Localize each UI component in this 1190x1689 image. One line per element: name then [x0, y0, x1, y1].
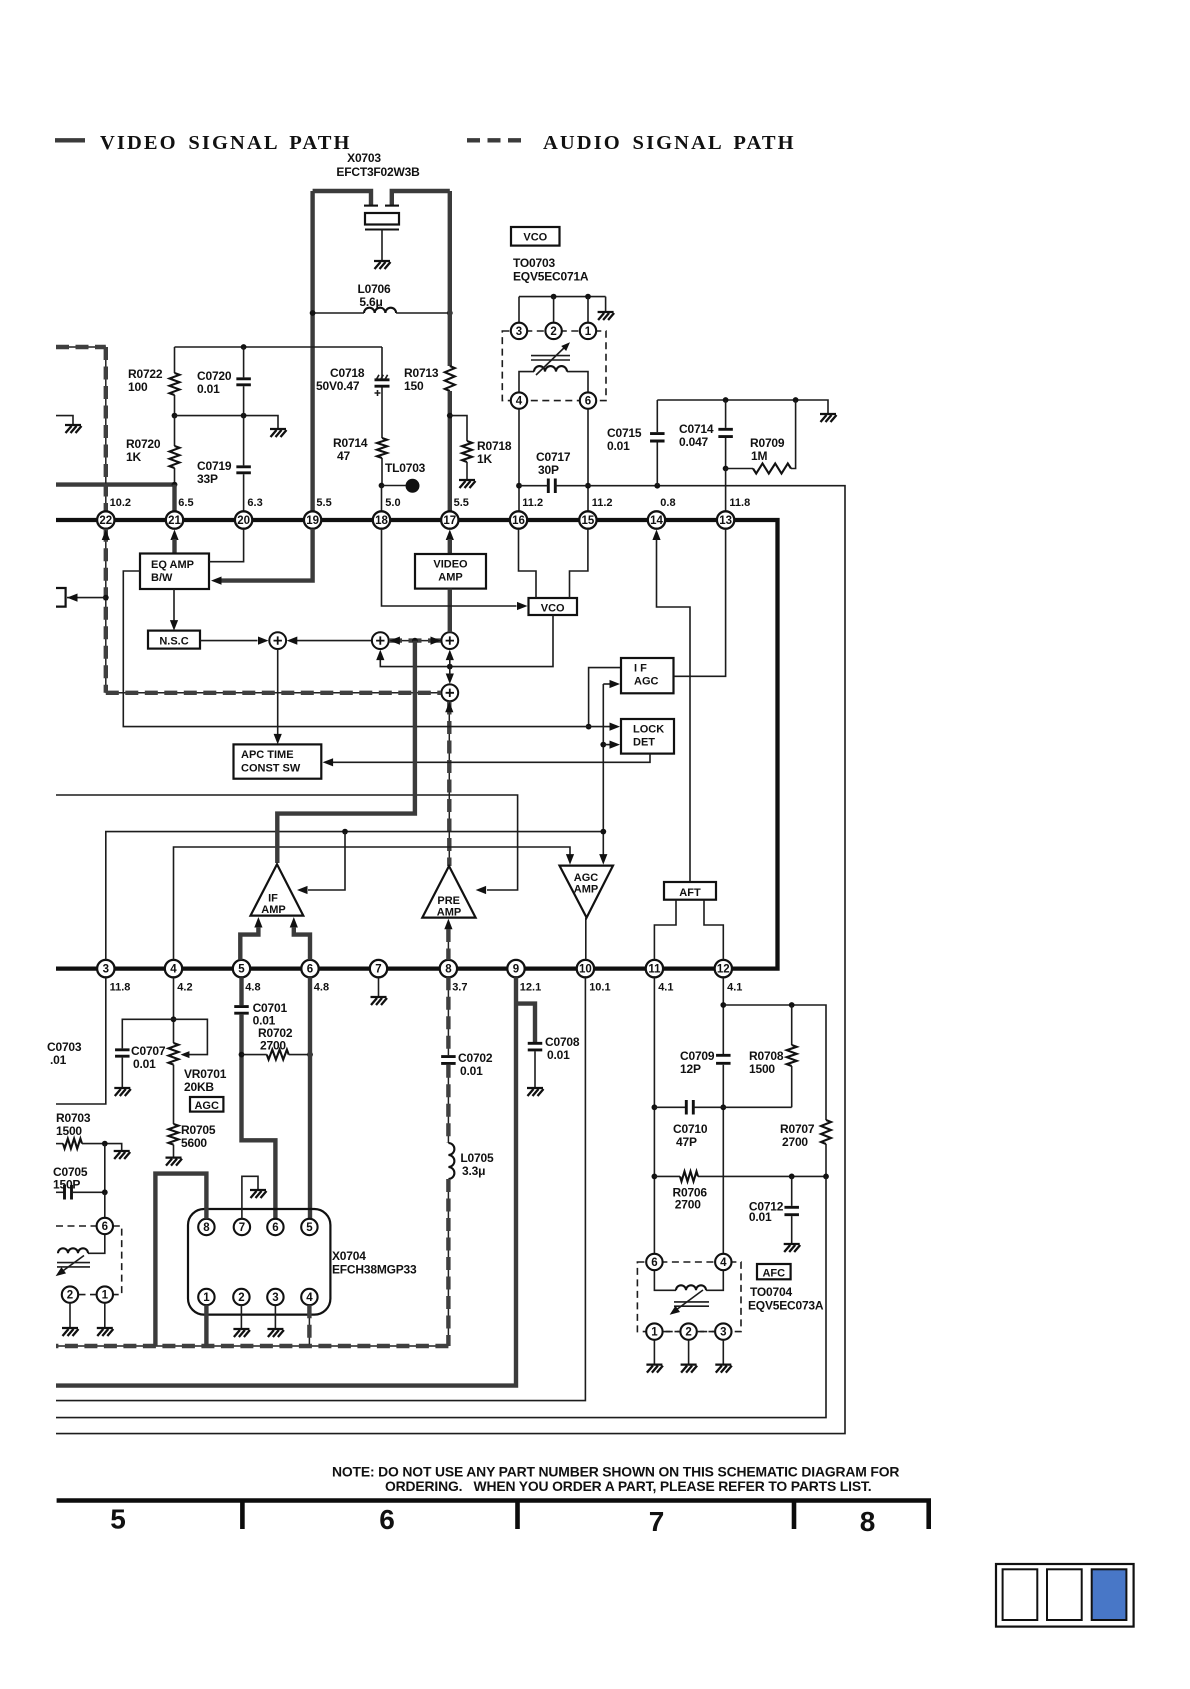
pin 13 of IC — [717, 511, 734, 528]
pin TO0704-6 — [646, 1254, 662, 1270]
dashed TO0704 pins 2-3 — [697, 1331, 715, 1333]
svg-text:R0720: R0720 — [126, 437, 161, 451]
wire R0703 node down — [104, 1144, 106, 1193]
pin TO0703-3 — [511, 323, 527, 339]
wire pin3 lower stub — [56, 977, 106, 1104]
arrow into IF AMP side — [297, 886, 308, 894]
arrow into AGC AMP left — [566, 854, 574, 865]
node R0708 top — [789, 1002, 795, 1008]
svg-text:5.5: 5.5 — [454, 497, 469, 509]
wire TO0704 pin2 ground — [688, 1340, 690, 1364]
wire thick X0704 pin8 loop — [155, 1174, 206, 1346]
ruler tick 1 — [240, 1501, 245, 1530]
summing node D — [441, 684, 458, 701]
wire pin14 jog to AFT — [657, 539, 691, 882]
ruler tick 2 — [515, 1501, 520, 1530]
ground below pin 7 — [371, 997, 388, 1005]
svg-text:7: 7 — [239, 1222, 245, 1234]
arrow into VCO — [517, 602, 528, 610]
wire EQ AMP down to NSC — [173, 589, 175, 624]
wire thick pin 19 to EQ AMP — [221, 529, 313, 581]
capacitor C0720 — [236, 379, 251, 385]
arrow into APC right — [323, 758, 334, 766]
wire TO0702 pin2 to ground — [69, 1303, 71, 1327]
wire second into IF AGC — [603, 683, 611, 685]
svg-text:1: 1 — [651, 1327, 658, 1339]
ruler tick 3 — [792, 1501, 797, 1530]
resistor R0722 — [170, 373, 180, 395]
wire L0706 left — [313, 312, 364, 314]
wire TO0703 top rail — [519, 296, 606, 298]
wire pin12 drop lower — [722, 1065, 724, 1254]
wire C0710 to R0708 — [693, 1106, 791, 1108]
wire R0708 down — [791, 1066, 793, 1107]
svg-text:3: 3 — [720, 1327, 726, 1339]
pin X0704-2 — [233, 1289, 249, 1305]
wire audio X0704 pin4 drop — [308, 1305, 310, 1346]
ground X0704 pin3 — [267, 1329, 284, 1337]
pin TO0704-2 — [680, 1323, 696, 1339]
capacitor C0715 — [650, 434, 665, 441]
wire audio dashed B to C — [389, 640, 441, 642]
wire to test point TL0703 — [382, 485, 406, 487]
wire EQ AMP to pin 20 — [209, 529, 244, 562]
svg-text:AGC: AGC — [574, 872, 599, 884]
node X0703 left junction — [310, 310, 316, 316]
wire thick EQ AMP to pin 21 — [172, 539, 176, 554]
capacitor C0719 top lead — [243, 416, 245, 466]
node AGC vertical at LOCK DET — [600, 742, 606, 748]
wire pin11 drop — [653, 977, 655, 1254]
ground below C0707 — [114, 1088, 131, 1096]
svg-text:VCO: VCO — [523, 232, 547, 244]
node R0702 right — [307, 1052, 313, 1058]
svg-text:R0714: R0714 — [333, 436, 368, 450]
transformer TO0703 winding — [534, 366, 567, 372]
arrow into NSC — [170, 620, 178, 631]
ground TO0704 pin2 — [681, 1365, 698, 1373]
capacitor C0720 bottom lead — [243, 386, 245, 415]
wire TO0704 pin1 ground — [653, 1340, 655, 1364]
pin TO0704-1 — [646, 1323, 662, 1339]
svg-text:0.8: 0.8 — [660, 497, 675, 509]
pin X0704-5 — [301, 1219, 317, 1235]
wire A down to APC switch — [277, 649, 279, 737]
pin X0704-6 — [267, 1219, 283, 1235]
svg-text:C0709: C0709 — [680, 1049, 715, 1063]
svg-text:TO0704: TO0704 — [750, 1285, 792, 1299]
svg-text:PRE: PRE — [437, 895, 460, 907]
dashed TO0704 pins 1-2 — [663, 1331, 680, 1333]
transformer TO0703 right leg — [567, 372, 588, 393]
page marker outer box — [996, 1564, 1134, 1627]
svg-text:19: 19 — [306, 515, 319, 527]
resistor R0703 line — [56, 1143, 63, 1145]
svg-text:3.3μ: 3.3μ — [462, 1164, 485, 1178]
svg-text:3: 3 — [103, 964, 109, 976]
wire long net from C0717 to right edge — [56, 486, 845, 1434]
block LOCK DET — [621, 719, 674, 754]
svg-text:2700: 2700 — [675, 1198, 701, 1212]
wire TO0703 pin2 riser — [553, 297, 555, 323]
arrow into IF AMP base left — [254, 917, 262, 928]
wire TO0703 pin3 riser — [518, 297, 520, 323]
arrow into offpage box — [67, 594, 78, 602]
wire X0704 pin3 ground — [274, 1305, 276, 1328]
wire thick video horizontal into pin 21 — [56, 482, 175, 486]
pin 5 of IC — [233, 960, 250, 977]
capacitor C0719 — [236, 467, 251, 473]
wire thick left leg of X0703 loop — [310, 191, 314, 511]
test point TL0703 — [406, 479, 420, 493]
capacitor C0714 — [718, 429, 733, 436]
legend audio signal path symbol — [467, 138, 521, 142]
capacitor C0718 plus mark — [375, 390, 381, 396]
wire thick video drop to pin 21 — [172, 485, 176, 512]
svg-text:6: 6 — [102, 1221, 108, 1233]
wire X0704 pin2 ground — [240, 1305, 242, 1328]
ground below C0712 — [784, 1244, 801, 1252]
page marker square 1 — [1003, 1569, 1038, 1620]
node R0707 bottom — [823, 1174, 829, 1180]
svg-text:4: 4 — [170, 964, 177, 976]
svg-text:2700: 2700 — [260, 1039, 286, 1053]
node C0714 R0709 junction — [723, 466, 729, 472]
ground TO0704 pin1 — [646, 1365, 663, 1373]
svg-text:5600: 5600 — [181, 1136, 207, 1150]
svg-text:EQV5EC071A: EQV5EC071A — [513, 270, 589, 284]
svg-text:AMP: AMP — [438, 572, 462, 584]
pin 21 of IC — [166, 511, 183, 528]
svg-text:100: 100 — [128, 380, 148, 394]
svg-text:0.01: 0.01 — [197, 382, 220, 396]
wire R0707 net to bottom rail — [56, 1176, 826, 1417]
svg-text:16: 16 — [512, 515, 525, 527]
svg-text:R0703: R0703 — [56, 1111, 91, 1125]
wire R0709 up — [791, 400, 796, 469]
arrow into B bottom — [376, 650, 384, 661]
wire AGC AMP to pin 10 — [585, 918, 587, 960]
dashed fragment TO0702 right edge — [113, 1226, 122, 1295]
pin TO0704-4 — [715, 1254, 731, 1270]
transformer TO0703 left leg — [519, 372, 534, 393]
pin 15 of IC — [579, 511, 596, 528]
svg-text:10: 10 — [579, 964, 592, 976]
wire TO0703 pin1 riser — [587, 297, 589, 323]
wire C0717 left — [519, 485, 548, 487]
capacitor C0708 — [528, 1043, 543, 1050]
svg-text:0.01: 0.01 — [749, 1210, 772, 1224]
block label VCO box — [511, 227, 560, 246]
svg-text:11.8: 11.8 — [110, 982, 131, 994]
svg-text:12.1: 12.1 — [520, 982, 541, 994]
pin 20 of IC — [235, 511, 252, 528]
svg-text:AMP: AMP — [574, 883, 598, 895]
wire R0722 to node — [174, 395, 176, 416]
node pin11 at C0710 — [652, 1104, 658, 1110]
node VR0701 top — [171, 1016, 177, 1022]
svg-text:3: 3 — [272, 1292, 278, 1304]
svg-text:EFCH38MGP33: EFCH38MGP33 — [332, 1263, 417, 1277]
pin X0704-1 — [198, 1289, 214, 1305]
svg-text:9: 9 — [513, 964, 519, 976]
svg-text:X0703: X0703 — [347, 151, 381, 165]
summing node B — [372, 632, 389, 649]
ground below C0708 — [527, 1088, 544, 1096]
svg-text:AUDIO SIGNAL PATH: AUDIO SIGNAL PATH — [543, 132, 796, 154]
svg-text:0.01: 0.01 — [547, 1048, 570, 1062]
block APC TIME CONST SW — [234, 744, 322, 778]
wire pin15 jog to VCO — [570, 529, 588, 598]
arrow into LOCK DET upper — [610, 723, 621, 731]
svg-text:LOCK: LOCK — [633, 724, 664, 736]
arrow into PRE AMP base — [444, 919, 452, 930]
arrow into C bottom — [446, 650, 454, 661]
node C0712 top — [789, 1174, 795, 1180]
resistor R0707 — [821, 1120, 831, 1144]
resistor R0714 — [377, 438, 387, 458]
svg-text:R0713: R0713 — [404, 366, 439, 380]
transformer TO0703 tuning arrow — [536, 345, 567, 375]
svg-text:0.01: 0.01 — [607, 439, 630, 453]
ground X0704 pin7 — [250, 1190, 267, 1198]
resistor R0709 lead left — [726, 468, 753, 470]
wire IF AMP branch drop — [308, 832, 345, 890]
summing node C — [441, 632, 458, 649]
svg-text:TO0703: TO0703 — [513, 256, 555, 270]
svg-text:11.2: 11.2 — [522, 497, 543, 509]
svg-text:3.7: 3.7 — [452, 982, 467, 994]
transformer TO0702 core — [57, 1263, 90, 1267]
capacitor C0715 bottom lead — [656, 442, 658, 485]
svg-text:4.1: 4.1 — [658, 982, 673, 994]
svg-text:8: 8 — [860, 1506, 876, 1537]
pin TO0702-2 — [62, 1286, 78, 1302]
wire audio bottom rail — [56, 1345, 448, 1347]
wire thick X0704 pin1 drop — [204, 1305, 208, 1346]
svg-text:APC TIME: APC TIME — [241, 749, 294, 761]
svg-text:C0717: C0717 — [536, 450, 571, 464]
ground right of C0720 — [270, 429, 287, 437]
svg-text:5.5: 5.5 — [316, 497, 331, 509]
capacitor C0707 — [115, 1050, 130, 1056]
ruler tick end — [926, 1501, 931, 1530]
pin 16 of IC — [510, 511, 527, 528]
node C0705 — [102, 1189, 108, 1195]
wire into LOCK DET lower — [603, 744, 611, 746]
node video tap between B and C — [412, 638, 418, 644]
wire R0720 to video node — [174, 468, 176, 485]
svg-text:ORDERING. WHEN YOU ORDER A P: ORDERING. WHEN YOU ORDER A PART, PLEASE … — [385, 1478, 871, 1494]
svg-text:5.0: 5.0 — [385, 497, 400, 509]
svg-text:11.8: 11.8 — [729, 497, 750, 509]
svg-text:VR0701: VR0701 — [184, 1067, 227, 1081]
ground below crystal — [374, 261, 391, 269]
wire mid horizontal to ground — [175, 416, 279, 428]
svg-text:DET: DET — [633, 737, 655, 749]
dashed outline TO0704 — [637, 1262, 741, 1332]
wire audio C0702 to L0705 — [447, 1065, 449, 1143]
wire R0718 to ground — [466, 462, 468, 479]
wire thick right leg lower — [448, 391, 452, 511]
wire thick pin6 to IF AMP — [294, 927, 310, 960]
svg-text:10.2: 10.2 — [110, 497, 131, 509]
pin 3 of IC — [97, 960, 114, 977]
svg-text:13: 13 — [719, 515, 732, 527]
wire node down to transformer pin 6 — [104, 1192, 106, 1217]
inductor L0706 — [364, 308, 396, 313]
svg-text:17: 17 — [443, 515, 456, 527]
ground top right rail — [820, 414, 837, 422]
transformer TO0702 tuning arrow — [62, 1256, 84, 1272]
pin TO0703-6 — [580, 392, 596, 408]
wire thick pin5 to IF AMP — [240, 927, 258, 960]
pin X0704-4 — [301, 1289, 317, 1305]
pin TO0702-1 — [97, 1286, 113, 1302]
svg-text:EQ AMP: EQ AMP — [151, 559, 194, 571]
wire AGC feed vertical — [602, 684, 604, 857]
wire crystal to ground — [381, 230, 383, 261]
wire R0703 to ground corner — [82, 1144, 122, 1150]
wire audio dashed top horizontal — [56, 346, 106, 348]
svg-text:6: 6 — [379, 1504, 395, 1535]
svg-text:11.2: 11.2 — [592, 497, 613, 509]
resistor R0718 — [462, 441, 472, 462]
node TO0703 rail pin1 — [585, 294, 591, 300]
svg-text:150: 150 — [404, 379, 424, 393]
dashed outline TO0703 — [502, 331, 606, 401]
resistor R0722 lead — [174, 347, 176, 373]
wire pin 18 into VCO — [382, 529, 517, 606]
node R0702 left — [239, 1052, 245, 1058]
wire L0706 right — [396, 312, 450, 314]
pin TO0704-3 — [715, 1323, 731, 1339]
dashed line into transformer pin6 — [56, 1225, 96, 1227]
svg-text:R0705: R0705 — [181, 1123, 216, 1137]
svg-text:1: 1 — [203, 1292, 210, 1304]
svg-text:4.8: 4.8 — [314, 982, 329, 994]
svg-text:150P: 150P — [53, 1178, 80, 1192]
wire thick video C down to IF AMP — [277, 641, 415, 863]
crystal X0703 body — [365, 213, 399, 225]
node pin 18 branch — [379, 483, 385, 489]
wire thick VIDEO AMP to C — [448, 589, 452, 633]
wire TO0703 pin4 drop — [518, 409, 520, 512]
ground below R0718 — [459, 480, 476, 488]
wire R0714 to pin 18 node — [381, 458, 383, 486]
pin 4 of IC — [165, 960, 182, 977]
node pin12 at top rail — [720, 1002, 726, 1008]
svg-text:AMP: AMP — [261, 904, 285, 916]
svg-text:R0708: R0708 — [749, 1049, 784, 1063]
transformer TO0704 tuning arrow — [676, 1290, 703, 1310]
svg-text:18: 18 — [375, 515, 388, 527]
svg-text:4.8: 4.8 — [245, 982, 260, 994]
amplifier AGC AMP — [560, 866, 614, 918]
svg-text:1: 1 — [585, 326, 592, 338]
capacitor C0714 top lead — [725, 400, 727, 428]
ruler bar — [57, 1498, 931, 1503]
pin 6 of IC — [301, 960, 318, 977]
arrow into pin 17 — [446, 530, 454, 541]
arrow into AGC AMP right — [599, 854, 607, 865]
wire top horizontal to C0718 — [175, 346, 383, 348]
svg-text:6.3: 6.3 — [247, 497, 262, 509]
svg-text:R0709: R0709 — [750, 436, 785, 450]
svg-text:L0705: L0705 — [460, 1151, 494, 1165]
svg-text:0.047: 0.047 — [679, 435, 709, 449]
capacitor C0719 bottom lead — [243, 474, 245, 511]
svg-text:L0706: L0706 — [357, 282, 391, 296]
svg-text:1K: 1K — [477, 452, 492, 466]
wire pin 18 drop — [381, 486, 383, 512]
svg-text:5: 5 — [238, 964, 245, 976]
svg-text:AMP: AMP — [437, 906, 461, 918]
svg-text:1: 1 — [102, 1290, 109, 1302]
wire R0706 to R0707 — [698, 1175, 826, 1177]
arrow into EQ AMP right — [211, 577, 222, 585]
pin 19 of IC — [304, 511, 321, 528]
arrow into pin 22 — [102, 530, 110, 541]
capacitor C0701 — [234, 1007, 249, 1014]
page marker square 2 — [1047, 1569, 1082, 1620]
svg-text:14: 14 — [650, 515, 663, 527]
svg-text:30P: 30P — [538, 463, 559, 477]
wire TO0704 pin3 ground — [722, 1340, 724, 1364]
svg-text:10.1: 10.1 — [589, 982, 610, 994]
svg-text:12P: 12P — [680, 1062, 701, 1076]
node pin15 line at C0717 — [585, 483, 591, 489]
pin X0704-8 — [198, 1219, 214, 1235]
block VIDEO AMP — [415, 554, 486, 589]
pin TO0703-4 — [511, 392, 527, 408]
pin TO0703-1 — [580, 323, 596, 339]
wire pin 13 riser — [725, 469, 727, 512]
resistor R0713 in right leg — [445, 366, 455, 391]
wire IF AGC to pin 13 — [674, 529, 726, 677]
transformer TO0704 left leg — [654, 1270, 676, 1290]
transformer TO0704 right leg — [706, 1270, 723, 1290]
resistor R0714 lead — [381, 388, 383, 439]
arrow into A from B — [287, 637, 298, 645]
arrow into summing node A — [258, 637, 269, 645]
svg-text:R0707: R0707 — [780, 1122, 815, 1136]
pin TO0702-6 — [97, 1218, 113, 1234]
wire IF AGC feed vertical — [589, 668, 621, 727]
wire TO0703 rail to ground — [605, 297, 607, 311]
capacitor C0702 — [441, 1057, 456, 1064]
svg-text:4: 4 — [516, 396, 523, 408]
svg-text:C0718: C0718 — [330, 366, 365, 380]
node pin11 at R0706 — [652, 1174, 658, 1180]
wire pin3 feed line — [106, 832, 604, 960]
capacitor C0717 — [548, 478, 555, 493]
wire TO0703 pin6 drop — [587, 409, 589, 512]
resistor R0708 lead — [791, 1005, 793, 1045]
IC top bus pins 22-13 — [56, 520, 778, 969]
svg-text:11: 11 — [648, 964, 661, 976]
wire pin4 drop — [173, 977, 175, 1043]
svg-text:22: 22 — [99, 515, 112, 527]
svg-text:4.1: 4.1 — [727, 982, 742, 994]
svg-text:7: 7 — [375, 964, 381, 976]
node AGC AMP right branch — [600, 829, 606, 835]
capacitor C0712 lead — [791, 1176, 793, 1206]
svg-text:15: 15 — [582, 515, 595, 527]
svg-text:IF: IF — [268, 893, 278, 905]
wire top rail pins 11-12 — [723, 1005, 826, 1120]
svg-text:12: 12 — [717, 964, 730, 976]
